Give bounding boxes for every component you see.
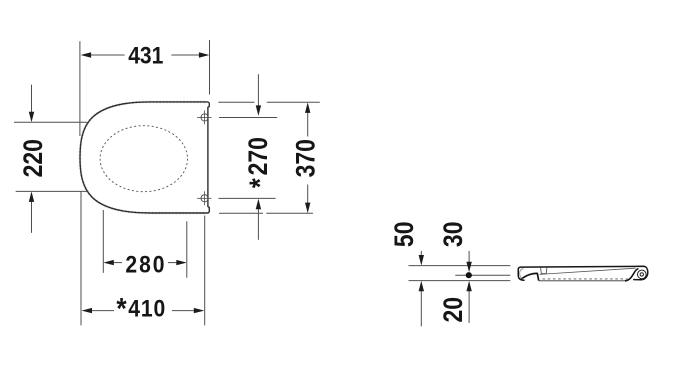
svg-text:431: 431 (128, 42, 163, 69)
side profile hinge arm curve (625, 269, 639, 281)
dimension *270 line and arrows (256, 74, 261, 240)
side profile hinge outer circle (638, 270, 647, 279)
side view reference line top (409, 265, 511, 267)
side profile dashed underside (543, 278, 628, 280)
side profile hinge pin circle (640, 273, 643, 276)
side profile front lip inner thin line (520, 269, 524, 280)
dimension 50 line and arrows (419, 251, 424, 326)
svg-text:280: 280 (125, 251, 166, 278)
seat inner opening (dashed ellipse) (100, 126, 187, 192)
svg-text:*410: *410 (116, 291, 166, 325)
dimension 370 extension lines (218, 102, 319, 213)
dimension 280 extension lines (103, 210, 187, 278)
side view reference line middle (hinge axis) (455, 274, 510, 276)
svg-text:*270: *270 (243, 137, 276, 188)
svg-text:50: 50 (389, 222, 419, 248)
side profile outline (518, 266, 648, 280)
side profile bottom edge (539, 280, 626, 282)
svg-text:370: 370 (291, 139, 321, 177)
svg-text:20: 20 (438, 297, 468, 323)
seat outline (top view) (80, 102, 209, 213)
dimension 220 line and arrows (29, 85, 34, 233)
svg-text:220: 220 (18, 139, 48, 177)
dimension 30/20 line and arrows (466, 251, 471, 323)
dimension *270 extension lines (219, 118, 278, 199)
side profile buffer notch (541, 268, 547, 274)
hinge hole top (197, 110, 212, 124)
dimension *410 line and arrows (82, 308, 205, 313)
hinge axis dot (466, 272, 472, 278)
dimension 220 extension lines (14, 122, 87, 191)
side view reference line bottom (409, 280, 511, 282)
dimension 431 extension lines (80, 40, 210, 136)
svg-text:30: 30 (438, 222, 468, 248)
side profile front lip (521, 273, 539, 280)
dimension *410 extension lines (81, 192, 205, 326)
dimension 370 line and arrows (305, 102, 310, 213)
dimension 431 line and arrows (81, 52, 210, 57)
hinge hole bottom (197, 191, 212, 205)
side profile top surface line (540, 268, 636, 274)
dimension 280 line and arrows (103, 260, 187, 265)
